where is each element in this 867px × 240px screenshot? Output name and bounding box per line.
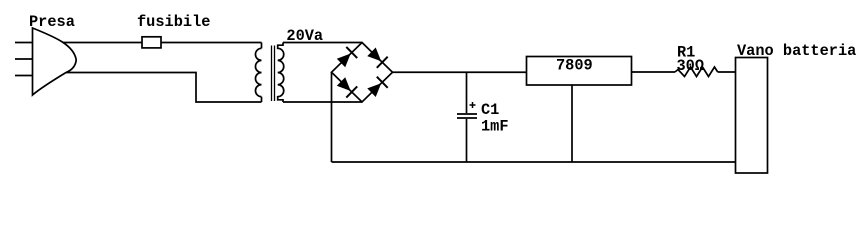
svg-text:Vano batteria: Vano batteria (737, 42, 856, 60)
transformer T1 secondary winding (278, 43, 284, 103)
diode D3 (337, 77, 357, 97)
wire (55, 73, 262, 103)
capacitor C1 plates (457, 113, 477, 115)
battery box Vano batteria (736, 58, 768, 174)
diode D2 (367, 48, 387, 68)
wire (50, 42, 262, 44)
node prong3 (15, 75, 40, 77)
wire C1 bottom (466, 119, 468, 162)
wire regulator output (632, 71, 676, 73)
svg-text:20Va: 20Va (286, 27, 323, 45)
capacitor C1 plus sign (470, 104, 476, 106)
svg-text:Presa: Presa (29, 13, 75, 31)
transformer T1 core (271, 46, 273, 102)
wire secondary top to bridge (283, 42, 362, 44)
wire negative vertical (331, 72, 333, 162)
wire positive rail (393, 71, 527, 73)
transformer T1 primary winding (255, 48, 261, 96)
wire bottom rail (332, 161, 736, 163)
svg-text:1mF: 1mF (481, 118, 509, 136)
bridge rectifier diamond (332, 43, 393, 103)
svg-text:C1: C1 (481, 101, 499, 119)
fuse F1 (142, 37, 161, 48)
wire (261, 97, 263, 102)
wire secondary bottom to bridge (283, 101, 362, 103)
node prong1 (15, 42, 40, 44)
svg-text:7809: 7809 (556, 57, 593, 75)
svg-text:30Ω: 30Ω (677, 57, 705, 75)
plug P1 Presa (33, 28, 77, 95)
svg-text:fusibile: fusibile (137, 13, 210, 31)
wire regulator ground pin (571, 85, 573, 162)
wire C1 top (466, 72, 468, 113)
regulator U1 7809 box (527, 57, 632, 86)
diode D4 (367, 77, 387, 97)
node prong2 (15, 58, 40, 60)
wire (261, 43, 263, 49)
wire resistor to battery (718, 71, 736, 73)
diode D1 (337, 47, 357, 67)
resistor R1 zigzag (675, 67, 718, 77)
